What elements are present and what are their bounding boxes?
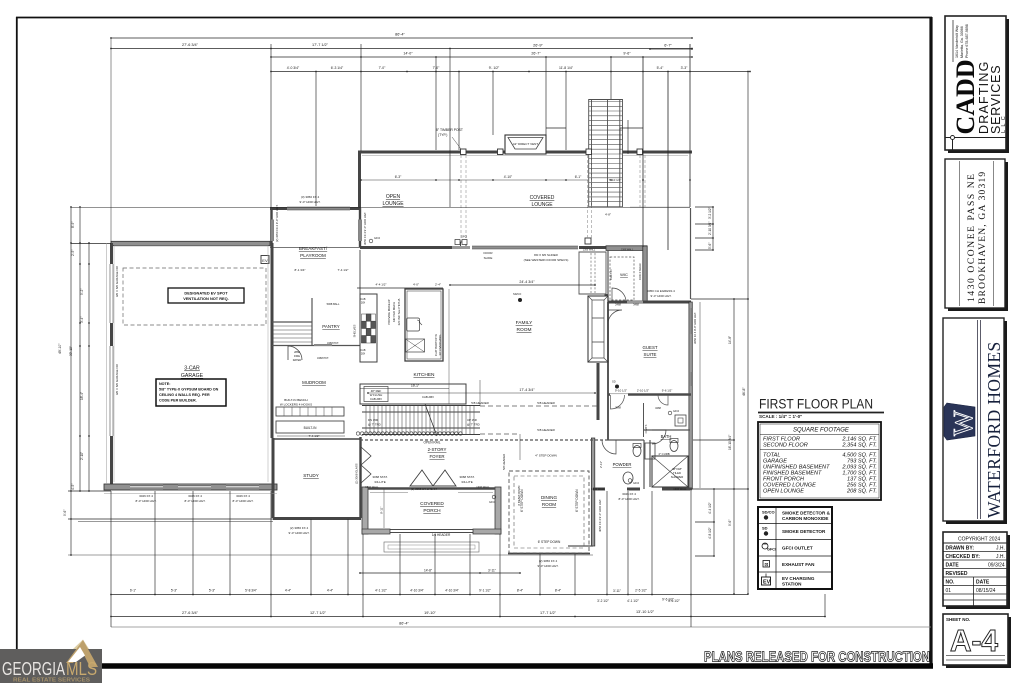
- left dim column line 3: [88, 243, 90, 491]
- wall powder top: [608, 439, 644, 441]
- waterford W logo shield: [944, 403, 978, 440]
- door slide opening: [452, 246, 470, 249]
- CADD drafting services box shadow: [948, 19, 1009, 153]
- wall bath top: [644, 429, 690, 431]
- svg-text:12'-7 1/2": 12'-7 1/2": [310, 611, 327, 615]
- svg-text:3468 PKT.: 3468 PKT.: [327, 341, 339, 345]
- exhaust fan symbol: [675, 415, 686, 426]
- mudroom bench: [276, 407, 344, 416]
- svg-text:VENTILATION NOT REQ.: VENTILATION NOT REQ.: [183, 296, 229, 301]
- wall stoop bottom: [568, 545, 593, 547]
- extension line x546: [545, 57, 547, 135]
- sheet number box: [943, 614, 1008, 665]
- svg-text:SD: SD: [762, 526, 768, 531]
- svg-text:MUDROOM: MUDROOM: [302, 380, 326, 385]
- svg-text:2'-11": 2'-11": [599, 461, 603, 468]
- wall hatched above wic: [606, 246, 647, 251]
- basement stair dashed header: [480, 406, 598, 434]
- svg-text:GFCI: GFCI: [767, 548, 776, 552]
- svg-text:GEORGIA: GEORGIA: [2, 658, 65, 679]
- svg-text:49'-10": 49'-10": [58, 343, 62, 354]
- svg-text:@ 7" TRD: @ 7" TRD: [467, 423, 480, 427]
- exterior stair treads: [589, 102, 622, 207]
- svg-text:BROOKHAVEN, GA 30319: BROOKHAVEN, GA 30319: [978, 171, 988, 304]
- legend exhaust fan row: [763, 561, 770, 568]
- svg-text:COPYRIGHT 2024: COPYRIGHT 2024: [958, 537, 1000, 543]
- pocket door pantry: [314, 344, 332, 346]
- fridge box: [364, 387, 388, 402]
- svg-text:KITCHEN: KITCHEN: [413, 372, 435, 378]
- bottom extension x540: [539, 554, 541, 594]
- svg-text:5/8 HEADER: 5/8 HEADER: [537, 428, 555, 432]
- mls logo mountain white face: [68, 647, 85, 662]
- svg-text:1430 OCONEE PASS NE: 1430 OCONEE PASS NE: [967, 172, 977, 302]
- frame top edge: [16, 17, 932, 19]
- bottom extension x607: [606, 491, 608, 594]
- svg-text:7'-0": 7'-0": [433, 66, 441, 70]
- svg-text:27'-6 3/4": 27'-6 3/4": [182, 611, 199, 615]
- bottom dim row overall: [111, 626, 931, 628]
- svg-text:EV: EV: [262, 258, 268, 263]
- coats closet wall: [643, 403, 645, 437]
- svg-text:Phone 678-687-9898: Phone 678-687-9898: [965, 24, 969, 58]
- extension line x643: [642, 57, 644, 247]
- dim labels top row2: [182, 43, 672, 48]
- kitchen upper cab line: [359, 250, 361, 294]
- svg-text:9'-0" HDR HGT.: 9'-0" HDR HGT.: [651, 294, 672, 298]
- svg-text:SHOWER: SHOWER: [671, 475, 684, 479]
- built-in below bench: [276, 421, 344, 433]
- svg-text:3046 FX 4: 3046 FX 4: [139, 494, 153, 498]
- wall guest suite left: [607, 302, 609, 440]
- svg-text:3046 FX 4: 3046 FX 4: [622, 492, 636, 496]
- wall right exterior: [689, 302, 692, 489]
- svg-text:8/0 X 8/0 SLIDER: 8/0 X 8/0 SLIDER: [534, 253, 559, 257]
- dimension line top row2: [111, 48, 692, 50]
- svg-text:NOTE:: NOTE:: [159, 382, 170, 386]
- svg-text:J.H.: J.H.: [996, 554, 1005, 560]
- svg-text:9'-1 1/2": 9'-1 1/2": [479, 589, 491, 593]
- svg-text:17'-7 1/2": 17'-7 1/2": [312, 43, 329, 47]
- sheet box rule lines: [946, 655, 1005, 657]
- bottom extension x230: [229, 491, 231, 594]
- wall breakfast top: [270, 207, 360, 210]
- svg-text:ROOM: ROOM: [517, 327, 532, 333]
- svg-text:4'-0": 4'-0": [413, 283, 419, 287]
- timber post 1: [461, 149, 467, 155]
- svg-text:CARBON MONOXIDE: CARBON MONOXIDE: [782, 516, 828, 521]
- svg-text:9'-10 1/2": 9'-10 1/2": [615, 389, 627, 393]
- svg-text:COATS: COATS: [644, 424, 648, 433]
- svg-text:3'-3": 3'-3": [681, 66, 689, 70]
- extension line x690 top: [689, 44, 691, 207]
- svg-text:BREAKFAST/: BREAKFAST/: [299, 246, 328, 251]
- ev designated dashed area: [123, 268, 266, 325]
- svg-text:208 SQ. FT.: 208 SQ. FT.: [846, 489, 877, 495]
- svg-text:2-STORY: 2-STORY: [428, 447, 447, 452]
- family room dim upper: [450, 284, 595, 286]
- svg-text:86'-4": 86'-4": [399, 622, 409, 626]
- wall bath block left: [591, 438, 594, 546]
- bottom extension x652: [651, 491, 653, 594]
- svg-text:2'-10 1/2": 2'-10 1/2": [637, 389, 649, 393]
- kitchen back counter: [360, 384, 466, 404]
- timber post bottom 2: [585, 238, 591, 244]
- svg-text:3068 STAT.: 3068 STAT.: [372, 475, 387, 479]
- svg-text:5/8 HEADER: 5/8 HEADER: [502, 454, 506, 470]
- guest suite dim vertical: [699, 302, 701, 488]
- svg-text:3046 FX 4: 3046 FX 4: [188, 494, 202, 498]
- svg-text:1614 Vanderbilt Way: 1614 Vanderbilt Way: [955, 25, 959, 58]
- mls logo mountain pale tip: [73, 640, 89, 650]
- right dim column x748: [747, 72, 749, 595]
- extension line x316: [315, 72, 317, 207]
- extension line x436: [435, 57, 437, 150]
- svg-text:01: 01: [946, 588, 952, 594]
- svg-text:9'- 1/2": 9'- 1/2": [489, 66, 500, 70]
- right dim column x713 lower: [695, 489, 714, 556]
- svg-text:4'-1 1/2": 4'-1 1/2": [627, 599, 639, 603]
- bottom dim porch row: [360, 572, 520, 574]
- svg-text:8'-0" HDR HGT.: 8'-0" HDR HGT.: [233, 499, 254, 503]
- svg-text:L L C: L L C: [1001, 115, 1007, 133]
- svg-text:19'-10": 19'-10": [424, 611, 436, 615]
- bottom dim labels row r: [182, 610, 655, 615]
- svg-text:PORCH: PORCH: [423, 508, 441, 514]
- svg-text:6'-3": 6'-3": [395, 175, 402, 179]
- extension line x493: [492, 72, 494, 136]
- wall main house top garage segment: [111, 241, 270, 245]
- svg-text:SCALE : 1/4" = 1'-0": SCALE : 1/4" = 1'-0": [759, 414, 802, 419]
- svg-text:4'-10 3/4": 4'-10 3/4": [410, 589, 423, 593]
- svg-text:5'-3": 5'-3": [171, 589, 177, 593]
- svg-text:3468: 3468: [655, 406, 661, 410]
- svg-text:6' STEP DOWN: 6' STEP DOWN: [575, 489, 579, 512]
- wall wic left: [607, 250, 609, 302]
- svg-text:(TYP.): (TYP.): [438, 133, 447, 137]
- svg-text:3'-2 1/2": 3'-2 1/2": [597, 599, 609, 603]
- svg-text:3046 FX 4: 3046 FX 4: [236, 494, 250, 498]
- porch steps dashed: [384, 542, 479, 552]
- bottom extension x363: [362, 534, 364, 616]
- wall powder bath divider: [649, 440, 651, 487]
- svg-text:BUILT-IN: BUILT-IN: [609, 269, 613, 280]
- svg-text:3/4-LITE: 3/4-LITE: [461, 480, 473, 484]
- svg-text:46'-8": 46'-8": [742, 387, 746, 396]
- svg-text:6'-3 1/4": 6'-3 1/4": [331, 66, 344, 70]
- left dim column line 2: [79, 207, 81, 491]
- svg-text:4" CURB: 4" CURB: [658, 452, 669, 456]
- svg-text:14'-8": 14'-8": [728, 336, 732, 344]
- svg-text:8'-9": 8'-9": [71, 222, 75, 228]
- svg-text:1306 WALL: 1306 WALL: [673, 487, 687, 491]
- bath vanity: [645, 443, 655, 459]
- svg-text:3-CAR: 3-CAR: [184, 366, 200, 372]
- svg-text:1306 WALL: 1306 WALL: [591, 487, 605, 491]
- svg-text:GFCI OUTLET: GFCI OUTLET: [782, 546, 813, 551]
- window lines in garage front wall: [130, 485, 259, 489]
- svg-text:WATERFORD HOMES: WATERFORD HOMES: [984, 341, 1004, 518]
- svg-text:OPEN LOUNGE: OPEN LOUNGE: [763, 489, 804, 495]
- guest dim row: [608, 393, 691, 395]
- porch top wall: [368, 487, 495, 489]
- slider opening in family wall: [472, 246, 578, 249]
- bottom extension x193: [192, 491, 194, 594]
- left rotated dim labels: [58, 222, 119, 516]
- legend row dividers: [758, 523, 832, 525]
- svg-text:3'-11": 3'-11": [488, 569, 496, 573]
- wall garage bottom band: [104, 484, 277, 490]
- legend column divider: [775, 507, 777, 589]
- svg-text:STATION: STATION: [782, 582, 802, 587]
- gfci symbols: [369, 235, 679, 486]
- wall powder right: [643, 440, 645, 489]
- svg-text:6' STEP DOWN: 6' STEP DOWN: [538, 540, 561, 544]
- svg-text:4" STEP DOWN: 4" STEP DOWN: [535, 454, 557, 458]
- fireplace box: [588, 296, 608, 362]
- porch front edge: [390, 530, 473, 533]
- svg-text:ROD 4 SHELF: ROD 4 SHELF: [638, 263, 642, 280]
- svg-text:STUDY: STUDY: [303, 473, 319, 478]
- post dashed projection lines: [461, 155, 645, 242]
- dim labels top row4: [287, 66, 688, 70]
- wall landing right edge: [690, 208, 692, 299]
- svg-text:POWDER: POWDER: [613, 462, 632, 467]
- svg-text:320 INC See P'INT./A: 320 INC See P'INT./A: [397, 298, 401, 325]
- svg-text:1306 WALL: 1306 WALL: [476, 485, 490, 489]
- tiled shower: [652, 456, 688, 487]
- extension line x450: [449, 49, 451, 208]
- right extension y489: [692, 488, 748, 490]
- svg-text:5/8" TYPE-X GYPSUM BOARD ON: 5/8" TYPE-X GYPSUM BOARD ON: [159, 388, 219, 392]
- svg-text:SD/CO: SD/CO: [762, 510, 775, 515]
- svg-text:6'-7": 6'-7": [664, 44, 672, 48]
- powder door arc: [602, 440, 616, 454]
- svg-text:9'-11": 9'-11": [380, 507, 384, 514]
- svg-text:W LOCKERS 4 HOOKS: W LOCKERS 4 HOOKS: [280, 403, 312, 407]
- kitchen top dim line: [357, 287, 443, 289]
- svg-text:SLIDE: SLIDE: [484, 256, 493, 260]
- revision table box: [943, 532, 1007, 606]
- svg-text:8'-1 3/4": 8'-1 3/4": [295, 268, 306, 272]
- garage front windows: [130, 485, 163, 489]
- svg-text:OPEN RAIL: OPEN RAIL: [423, 441, 440, 445]
- frame bottom thick edge: [100, 663, 933, 669]
- svg-text:FIRE: FIRE: [294, 354, 300, 358]
- svg-text:3'-11": 3'-11": [613, 589, 621, 593]
- svg-text:@ 7" TRD: @ 7" TRD: [368, 423, 381, 427]
- svg-text:SQUARE FOOTAGE: SQUARE FOOTAGE: [793, 428, 850, 434]
- bottom extension x470: [469, 534, 471, 594]
- mudroom interior dims: [277, 435, 345, 437]
- timber post 2: [498, 149, 504, 155]
- svg-text:LOUNGE: LOUNGE: [531, 202, 553, 208]
- svg-text:26'-7": 26'-7": [531, 52, 541, 56]
- svg-text:OPEN: OPEN: [386, 194, 401, 200]
- CADD separator line above address: [952, 20, 954, 62]
- svg-text:9'-0" HDR HGT.: 9'-0" HDR HGT.: [300, 200, 321, 204]
- svg-text:GFCI: GFCI: [673, 409, 679, 413]
- svg-text:DINING: DINING: [541, 495, 558, 500]
- svg-text:PLAYROOM: PLAYROOM: [300, 253, 326, 258]
- svg-text:DRAWN BY:: DRAWN BY:: [946, 546, 975, 552]
- extension line x566: [565, 72, 567, 151]
- svg-text:14'-0": 14'-0": [403, 52, 413, 56]
- svg-text:6'-1": 6'-1": [575, 175, 582, 179]
- svg-text:9'-6": 9'-6": [63, 510, 67, 516]
- svg-text:BUILT-IN: BUILT-IN: [304, 426, 318, 430]
- svg-text:4'-5": 4'-5": [71, 484, 75, 490]
- project address box: [945, 159, 1005, 308]
- wall study front: [273, 517, 361, 520]
- dining dashed platform outline: [509, 471, 589, 553]
- svg-text:MLS: MLS: [66, 658, 97, 679]
- wall main house top breakfast thin edge: [270, 247, 360, 249]
- svg-text:9'-2": 9'-2": [80, 289, 84, 295]
- wic pocket door bottom: [627, 301, 643, 303]
- svg-text:6' STEP DOWN: 6' STEP DOWN: [520, 489, 524, 512]
- bottom extension x311: [310, 519, 312, 594]
- svg-text:8'-4": 8'-4": [517, 589, 523, 593]
- garage window labels: [136, 195, 676, 568]
- bath toilet: [670, 441, 678, 452]
- svg-text:7'-4 1/2": 7'-4 1/2": [309, 434, 320, 438]
- svg-text:5'-8 3/4": 5'-8 3/4": [245, 589, 257, 593]
- family room built-in: [579, 252, 606, 294]
- svg-text:3068 STAT.: 3068 STAT.: [459, 475, 474, 479]
- mls logo mountain gold roof: [66, 640, 98, 667]
- table column divider: [973, 577, 975, 606]
- svg-text:4'-4 1/2": 4'-4 1/2": [708, 502, 712, 514]
- svg-text:(3) 3050 FX 4: (3) 3050 FX 4: [301, 195, 320, 199]
- svg-text:NO.: NO.: [946, 580, 956, 586]
- kitchen dim line: [360, 388, 449, 390]
- svg-text:2868: 2868: [294, 350, 300, 354]
- legend ev charging row: [762, 577, 771, 585]
- right dim column x713 upper: [695, 207, 713, 250]
- svg-text:(2) 3068 GLASS: (2) 3068 GLASS: [355, 463, 359, 484]
- waterford inner double rule: [977, 320, 979, 519]
- svg-text:5'-3": 5'-3": [209, 589, 215, 593]
- powder toilet: [633, 446, 641, 457]
- extension line x271: [270, 44, 272, 208]
- timber post 4: [637, 149, 643, 155]
- project address box shadow: [948, 162, 1008, 311]
- guest bottom wall: [608, 393, 610, 396]
- CADD company address small rotated text: [955, 24, 969, 58]
- svg-text:SD/CO: SD/CO: [513, 292, 521, 296]
- exterior stair rails: [589, 99, 623, 207]
- left extension y207 long: [71, 206, 630, 208]
- svg-text:4'-8": 4'-8": [605, 213, 611, 217]
- svg-text:3050 FX 4 9'-0" HDR HGT.: 3050 FX 4 9'-0" HDR HGT.: [693, 312, 697, 344]
- garage roof overhang line: [106, 243, 108, 484]
- svg-text:4'-8 1/2": 4'-8 1/2": [708, 527, 712, 539]
- wall mudroom divider: [272, 321, 312, 323]
- bottom extension x271: [270, 491, 272, 616]
- extension line x361: [360, 44, 362, 151]
- svg-text:SECOND FLOOR: SECOND FLOOR: [763, 443, 808, 449]
- svg-text:GFCI: GFCI: [489, 500, 495, 504]
- svg-text:4'-10": 4'-10": [504, 175, 513, 179]
- right dim column x734: [733, 299, 735, 594]
- svg-text:REAL ESTATE SERVICES: REAL ESTATE SERVICES: [13, 678, 91, 683]
- cooktop counter: [360, 294, 377, 362]
- svg-text:19'-1": 19'-1": [411, 384, 419, 388]
- stair side rails: [362, 406, 480, 435]
- svg-text:BATH: BATH: [661, 434, 672, 439]
- wall family room right lower: [597, 363, 600, 420]
- svg-text:CODE PER BUILDER.: CODE PER BUILDER.: [159, 399, 197, 403]
- direct vent fireplace box: [505, 135, 546, 154]
- wall lounge left: [358, 151, 361, 208]
- svg-text:CEILING 4 WALLS REQ. PER: CEILING 4 WALLS REQ. PER: [159, 393, 210, 397]
- svg-text:(SEE WESTERN DOOR SPECS): (SEE WESTERN DOOR SPECS): [524, 258, 569, 262]
- svg-text:(2) 3068 3/4-LITE ST: (2) 3068 3/4-LITE ST: [411, 487, 438, 491]
- svg-text:8'-0" HDR HGT.: 8'-0" HDR HGT.: [185, 499, 206, 503]
- svg-text:3/4-LITE: 3/4-LITE: [374, 480, 386, 484]
- svg-text:DESIGNATED EV SPOT: DESIGNATED EV SPOT: [184, 291, 228, 296]
- frame right edge: [929, 17, 932, 666]
- cooktop checker grid: [362, 314, 376, 343]
- wic door arc: [612, 288, 626, 302]
- svg-text:1306 WALL: 1306 WALL: [583, 249, 596, 252]
- bottom extension x155: [154, 491, 156, 594]
- foyer entry door triangles: [410, 470, 456, 486]
- svg-text:18'-4": 18'-4": [80, 392, 84, 400]
- svg-text:SMOKE DETECTOR: SMOKE DETECTOR: [782, 529, 826, 534]
- stair break diagonal: [425, 404, 437, 436]
- svg-text:4'-1 1/2": 4'-1 1/2": [375, 589, 387, 593]
- family room dim lower: [368, 392, 595, 394]
- wall study right: [359, 437, 361, 518]
- dimension line top right 6-7: [650, 48, 692, 50]
- timber post 3: [586, 149, 592, 155]
- extension line x459: [458, 72, 460, 151]
- bottom dim row segments: [111, 616, 825, 618]
- svg-text:CADD: CADD: [951, 59, 980, 134]
- svg-text:EXHAUST FAN: EXHAUST FAN: [782, 562, 815, 567]
- svg-text:CAB ABV: CAB ABV: [422, 395, 434, 399]
- svg-text:1306 WALL: 1306 WALL: [365, 485, 379, 489]
- svg-text:3'-4": 3'-4": [80, 317, 84, 323]
- exterior stair top edge: [589, 99, 623, 101]
- address box inner rule right: [993, 161, 995, 306]
- svg-text:08/15/24: 08/15/24: [976, 588, 996, 594]
- svg-text:4'-0 3/4": 4'-0 3/4": [287, 66, 300, 70]
- svg-text:PLANS RELEASED FOR CONSTRUCTIO: PLANS RELEASED FOR CONSTRUCTION: [704, 650, 930, 666]
- wall guest suite top: [608, 301, 691, 304]
- porch interior dim: [383, 489, 385, 528]
- powder sink: [623, 472, 633, 484]
- designated ev spot box: [168, 288, 244, 303]
- bottom extension x628: [627, 491, 629, 594]
- lounge interior dim line: [361, 179, 588, 181]
- dimension line top row3: [271, 56, 692, 58]
- extension line x611: [610, 57, 612, 99]
- svg-text:9'-6": 9'-6": [728, 520, 732, 526]
- island sink: [407, 318, 420, 331]
- study french door triangles: [361, 447, 371, 483]
- svg-text:9'-6 1/2": 9'-6 1/2": [662, 598, 674, 602]
- dimension line top overall 86-4: [111, 37, 692, 39]
- svg-text:COVERED: COVERED: [420, 501, 444, 507]
- svg-text:2868: 2868: [615, 406, 621, 410]
- svg-text:5'-6": 5'-6": [708, 243, 712, 249]
- pantry shelves closet: [272, 326, 312, 342]
- wall lounge top: [358, 151, 692, 154]
- svg-text:CAB ABV: CAB ABV: [370, 397, 382, 401]
